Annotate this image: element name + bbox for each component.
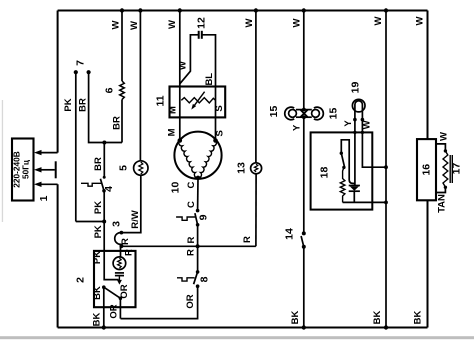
sensor 19 inner loop: [355, 101, 363, 120]
box18 switch upper dot: [340, 152, 343, 155]
svg-text:W: W: [129, 21, 140, 30]
light box 2: [94, 251, 136, 307]
svg-text:5: 5: [117, 165, 129, 171]
fuse 15 lower dot: [302, 115, 306, 119]
switch 8 upper contact dot: [196, 270, 200, 274]
wire R bus to switch 8: [197, 246, 199, 272]
wire C column motor to switch9: [197, 178, 199, 210]
relay 11 arrow: [193, 92, 205, 108]
svg-text:8: 8: [198, 276, 210, 282]
motor M terminal dot: [178, 138, 183, 143]
svg-text:15: 15: [327, 108, 339, 120]
motor C terminal dot: [196, 176, 201, 181]
svg-text:PK: PK: [92, 251, 103, 264]
svg-text:M: M: [167, 106, 178, 114]
17 top dot: [444, 149, 447, 152]
wire BR from pin7 down: [89, 72, 122, 142]
node top W x304: [302, 8, 306, 12]
lamp2 base bar lower: [115, 275, 124, 277]
switch 8 lever: [194, 272, 198, 284]
connector 3 node dot: [120, 231, 124, 235]
node top W x180: [178, 8, 182, 12]
svg-text:15: 15: [268, 106, 280, 118]
svg-text:R: R: [186, 249, 197, 256]
fuse 15 right inner circle: [312, 110, 320, 118]
svg-text:50Гц: 50Гц: [21, 159, 31, 179]
fuse 15 right outer arc: [314, 107, 323, 120]
relay 11 resistor zigzag: [181, 98, 215, 103]
wire bottom bus: [58, 327, 428, 329]
power supply box 1: [12, 139, 34, 201]
terminal N wire: [40, 183, 58, 185]
fuse 15 left inner circle: [289, 110, 297, 118]
switch 8 thermal bracket: [177, 278, 195, 281]
17 bottom dot: [444, 186, 447, 189]
fuse 15 left outer arc: [285, 107, 294, 120]
svg-text:W: W: [178, 61, 189, 70]
door switch lower dot: [119, 297, 123, 301]
motor main winding: [179, 141, 198, 178]
wire PK below switch 4: [103, 191, 105, 251]
fuse 15 bottom bar: [296, 116, 312, 118]
svg-text:W: W: [111, 20, 122, 29]
node top W x122: [120, 8, 124, 12]
fan 13 filament: [254, 164, 257, 172]
svg-text:12: 12: [195, 17, 207, 29]
box18 diode top bar: [349, 185, 360, 187]
connector3 lamp node dot: [120, 244, 124, 248]
node Y lead on box18 edge: [353, 131, 356, 134]
wire col386: [385, 11, 387, 328]
fan motor 13 circle: [251, 163, 262, 174]
svg-text:Y: Y: [343, 120, 354, 127]
motor 10 circle: [174, 132, 221, 179]
lamp 5 filament: [139, 162, 143, 174]
svg-text:BK: BK: [413, 311, 424, 325]
box18 bottom rail: [343, 201, 386, 203]
switch 4 upper contact: [103, 176, 106, 179]
wire BR drop to switch 4: [103, 143, 105, 178]
terminal N arrowhead: [34, 182, 42, 187]
svg-text:BK: BK: [290, 311, 301, 325]
svg-text:2: 2: [74, 277, 86, 283]
sensor 19 outer circle: [352, 99, 365, 112]
terminal earth wire: [40, 169, 55, 171]
wire left edge upper: [57, 11, 59, 153]
switch 9 thermal bracket: [176, 217, 195, 220]
wire PK horizontal join: [76, 221, 104, 223]
node PK junction: [102, 220, 106, 224]
wire OR from switch 8: [121, 286, 198, 318]
fuse 15 top bar: [296, 109, 312, 111]
svg-text:BR: BR: [93, 157, 104, 171]
svg-text:14: 14: [283, 228, 295, 240]
wire OR from door switch down: [119, 298, 121, 318]
wire left edge lower: [57, 184, 59, 327]
wire right edge lower: [427, 200, 429, 327]
lamp 2 circle: [113, 257, 126, 270]
connector 3 lower dot: [120, 244, 124, 248]
svg-text:R: R: [124, 249, 135, 256]
connector 3 hook: [115, 233, 122, 245]
box18 diode bottom bar: [349, 190, 360, 192]
svg-text:R/W: R/W: [130, 210, 141, 229]
svg-text:11: 11: [155, 95, 167, 106]
wire PK inside box2: [104, 251, 118, 280]
motor start winding: [198, 141, 216, 178]
wire PK from pin7 down: [75, 72, 77, 221]
lamp 2 filament: [118, 258, 122, 268]
sensor 19 right pin dot: [361, 118, 365, 122]
terminal L wire to top bus: [40, 152, 58, 154]
box18 diode triangle: [350, 186, 359, 190]
fuse 15 upper dot: [302, 108, 306, 112]
terminal earth bar: [55, 161, 57, 178]
node W lead on col386: [384, 165, 388, 169]
wire col122 upper: [121, 11, 123, 82]
svg-text:OR: OR: [185, 294, 196, 308]
wire BK from door switch to bottom bus: [103, 287, 105, 327]
wire W lead of 19: [362, 120, 386, 168]
svg-text:19: 19: [350, 82, 362, 94]
capacitor 12 right plate: [201, 31, 203, 39]
switch 4 lever: [100, 179, 104, 191]
svg-text:BL: BL: [204, 73, 215, 86]
switch 4 thermal bracket: [81, 183, 101, 186]
wire R/W from lamp5: [121, 175, 140, 232]
coil 17: [443, 151, 448, 187]
svg-text:S: S: [215, 130, 226, 136]
svg-text:R: R: [186, 236, 197, 243]
box18 switch lever: [341, 153, 344, 167]
wire col180 M column: [179, 11, 181, 141]
node BR junction: [102, 141, 106, 145]
svg-text:PK: PK: [93, 201, 104, 214]
switch 9 upper contact dot: [196, 209, 200, 213]
lamp2 base bar upper: [115, 272, 124, 274]
node bottom BK x304: [302, 325, 306, 329]
wire col304 Y to switch 14: [303, 117, 305, 233]
svg-text:Y: Y: [291, 124, 302, 131]
svg-text:BK: BK: [92, 286, 103, 300]
wire col140 upper: [139, 11, 141, 162]
motor S terminal dot: [213, 138, 218, 143]
wire right edge upper: [427, 11, 429, 140]
wire R bus: [121, 244, 256, 246]
scan artifact gray band bottom: [0, 336, 474, 339]
wire cap left lead W: [180, 35, 199, 84]
switch 4 contact dot: [102, 189, 106, 193]
door switch lever: [104, 287, 121, 298]
start relay box 11: [170, 87, 226, 118]
wire col256 lower to R bus: [255, 174, 257, 247]
svg-text:BR: BR: [111, 116, 122, 130]
lamp2 plunger arrow: [118, 277, 120, 281]
svg-text:W: W: [292, 18, 303, 27]
svg-text:R: R: [242, 236, 253, 243]
svg-text:6: 6: [103, 87, 115, 93]
svg-text:OR: OR: [119, 284, 130, 298]
heater box 16: [417, 139, 436, 200]
capacitor 12 left plate: [198, 31, 200, 39]
switch 14 contact dot: [302, 245, 306, 249]
wire switch9 to R bus: [197, 225, 199, 247]
svg-text:BK: BK: [92, 313, 103, 327]
node top W x256: [254, 8, 258, 12]
svg-text:1: 1: [38, 195, 50, 201]
switch 14 upper dot: [302, 231, 306, 235]
wire col256 upper: [255, 11, 257, 164]
box18 diode lead: [353, 191, 355, 202]
wire Y lead of 19: [354, 120, 356, 186]
terminal L arrowhead: [34, 150, 42, 155]
resistor 6: [120, 81, 125, 100]
switch 9 lower contact dot: [196, 223, 200, 227]
thermostat 17 bottom lead: [436, 187, 445, 193]
wire cap right lead BL: [202, 35, 216, 87]
svg-text:C: C: [186, 201, 197, 208]
terminal 7 pin PK dot: [74, 70, 78, 74]
svg-text:3: 3: [110, 221, 122, 227]
terminal earth arrowhead: [34, 167, 42, 172]
thermostat 17 top lead: [436, 144, 445, 151]
wire S column relay to motor: [215, 87, 217, 141]
wire col122 lower BR: [121, 100, 123, 143]
wire col304 upper: [303, 11, 305, 110]
17 core bars: [450, 155, 452, 183]
wire top bus: [58, 10, 428, 12]
node bottom BK x386: [384, 325, 388, 329]
svg-text:W: W: [373, 16, 384, 25]
wire lamp2 top lead R: [120, 246, 122, 257]
node W lead on box18 edge: [361, 131, 364, 134]
svg-text:17: 17: [451, 163, 463, 175]
svg-text:18: 18: [318, 167, 330, 179]
switch 8 lower contact dot: [196, 284, 200, 288]
defrost box 18: [311, 132, 373, 209]
svg-text:16: 16: [420, 164, 432, 176]
svg-text:W: W: [415, 16, 426, 25]
svg-text:PK: PK: [93, 225, 104, 238]
svg-text:C: C: [186, 181, 197, 188]
sensor 19 left pin dot: [353, 118, 357, 122]
node R bus switch column: [196, 244, 200, 248]
box18 switch lower dot: [342, 166, 345, 169]
svg-text:OR: OR: [109, 304, 120, 318]
node top W x140: [138, 8, 142, 12]
door switch contact dot: [102, 285, 106, 289]
svg-text:W: W: [361, 120, 372, 129]
svg-text:9: 9: [198, 214, 210, 220]
svg-text:13: 13: [235, 162, 247, 174]
svg-text:BK: BK: [372, 311, 383, 325]
svg-text:10: 10: [169, 182, 181, 194]
svg-text:PK: PK: [63, 98, 74, 111]
wire col304 BK lower: [303, 247, 305, 328]
svg-text:W: W: [167, 20, 178, 29]
svg-text:M: M: [166, 128, 177, 136]
svg-text:W: W: [244, 18, 255, 27]
switch 9 lever: [195, 213, 198, 225]
svg-text:BR: BR: [77, 98, 88, 112]
svg-text:TAN: TAN: [437, 194, 448, 213]
switch 14 lever: [301, 236, 304, 246]
svg-text:W: W: [438, 132, 449, 141]
scan artifact gray line left: [2, 100, 3, 222]
svg-text:7: 7: [75, 60, 87, 66]
svg-text:R: R: [120, 238, 131, 245]
box18 resistor: [340, 167, 345, 202]
node bottom BK x104: [102, 325, 106, 329]
box18 hook wire: [341, 140, 355, 184]
fuse 15 X: [300, 110, 308, 118]
lamp 5 circle: [134, 161, 148, 175]
node rail on col386: [384, 201, 388, 205]
node top W x386: [384, 8, 388, 12]
terminal 7 pin BR dot: [87, 70, 91, 74]
